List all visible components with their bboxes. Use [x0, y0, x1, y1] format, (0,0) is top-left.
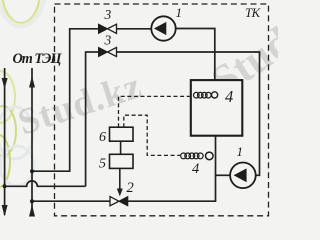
dashed TK boundary [55, 4, 269, 216]
arrow stem down [117, 189, 123, 197]
wire to valve 3a [69, 28, 99, 30]
svg-text:6: 6 [99, 130, 106, 145]
svg-text:1: 1 [237, 144, 244, 159]
wire supply riser [31, 68, 33, 215]
pump 1a [151, 16, 175, 40]
wire box bottom to tee [215, 136, 217, 202]
wire bypass y201 left [32, 200, 110, 202]
wire valve 3b to corner [86, 51, 99, 53]
svg-text:4: 4 [225, 87, 233, 106]
valve 3b [99, 47, 117, 56]
svg-text:ТК: ТК [245, 6, 262, 20]
wire box5 stem to valve 2 [119, 168, 121, 190]
valve 3a [99, 24, 117, 33]
wire y186 with hop over supply [5, 181, 86, 186]
wire box6 to box5 [120, 141, 122, 154]
svg-text:3: 3 [104, 7, 112, 22]
svg-text:3: 3 [104, 33, 112, 48]
wire valve 2 to riser [128, 200, 217, 202]
svg-text:2: 2 [127, 180, 134, 196]
wire pump 1a to TK drop [176, 29, 215, 81]
junction dot return [3, 184, 7, 188]
valve 2 [110, 197, 128, 206]
actuator box 5 [110, 154, 134, 168]
svg-text:4: 4 [192, 161, 199, 177]
junction dot supply y201 [30, 199, 34, 203]
heat exchanger box [191, 80, 243, 136]
junction dot supply y171 [30, 169, 34, 173]
pump 1b [230, 163, 256, 189]
wire supply branch horizontal y171 [32, 170, 70, 172]
wire return riser [4, 68, 6, 215]
arrow supply up mid [29, 76, 35, 88]
arrow return down mid [2, 78, 8, 89]
wire pump 1b up right side [117, 52, 260, 175]
svg-text:1: 1 [176, 5, 183, 20]
arrow supply up bottom [29, 205, 35, 217]
watermark rings left [0, 0, 45, 187]
wire supply vertical x69.7 [69, 29, 71, 172]
controller box 6 [110, 127, 134, 141]
wire valve 3a to pump 1a [117, 28, 152, 30]
wire corner x85.6 down [85, 51, 87, 186]
sensor coil 4 upper [194, 92, 218, 98]
control line 6 to sensor 4 lower (dashed) [124, 115, 180, 155]
sensor coil 4 lower [181, 152, 214, 160]
control line 6 to sensor 4 upper (dashed) [119, 96, 191, 127]
arrow return down bottom [2, 205, 8, 217]
svg-text:От ТЭЦ: От ТЭЦ [13, 51, 63, 67]
wire tee to pump 1b [216, 174, 232, 176]
svg-text:5: 5 [99, 157, 106, 172]
